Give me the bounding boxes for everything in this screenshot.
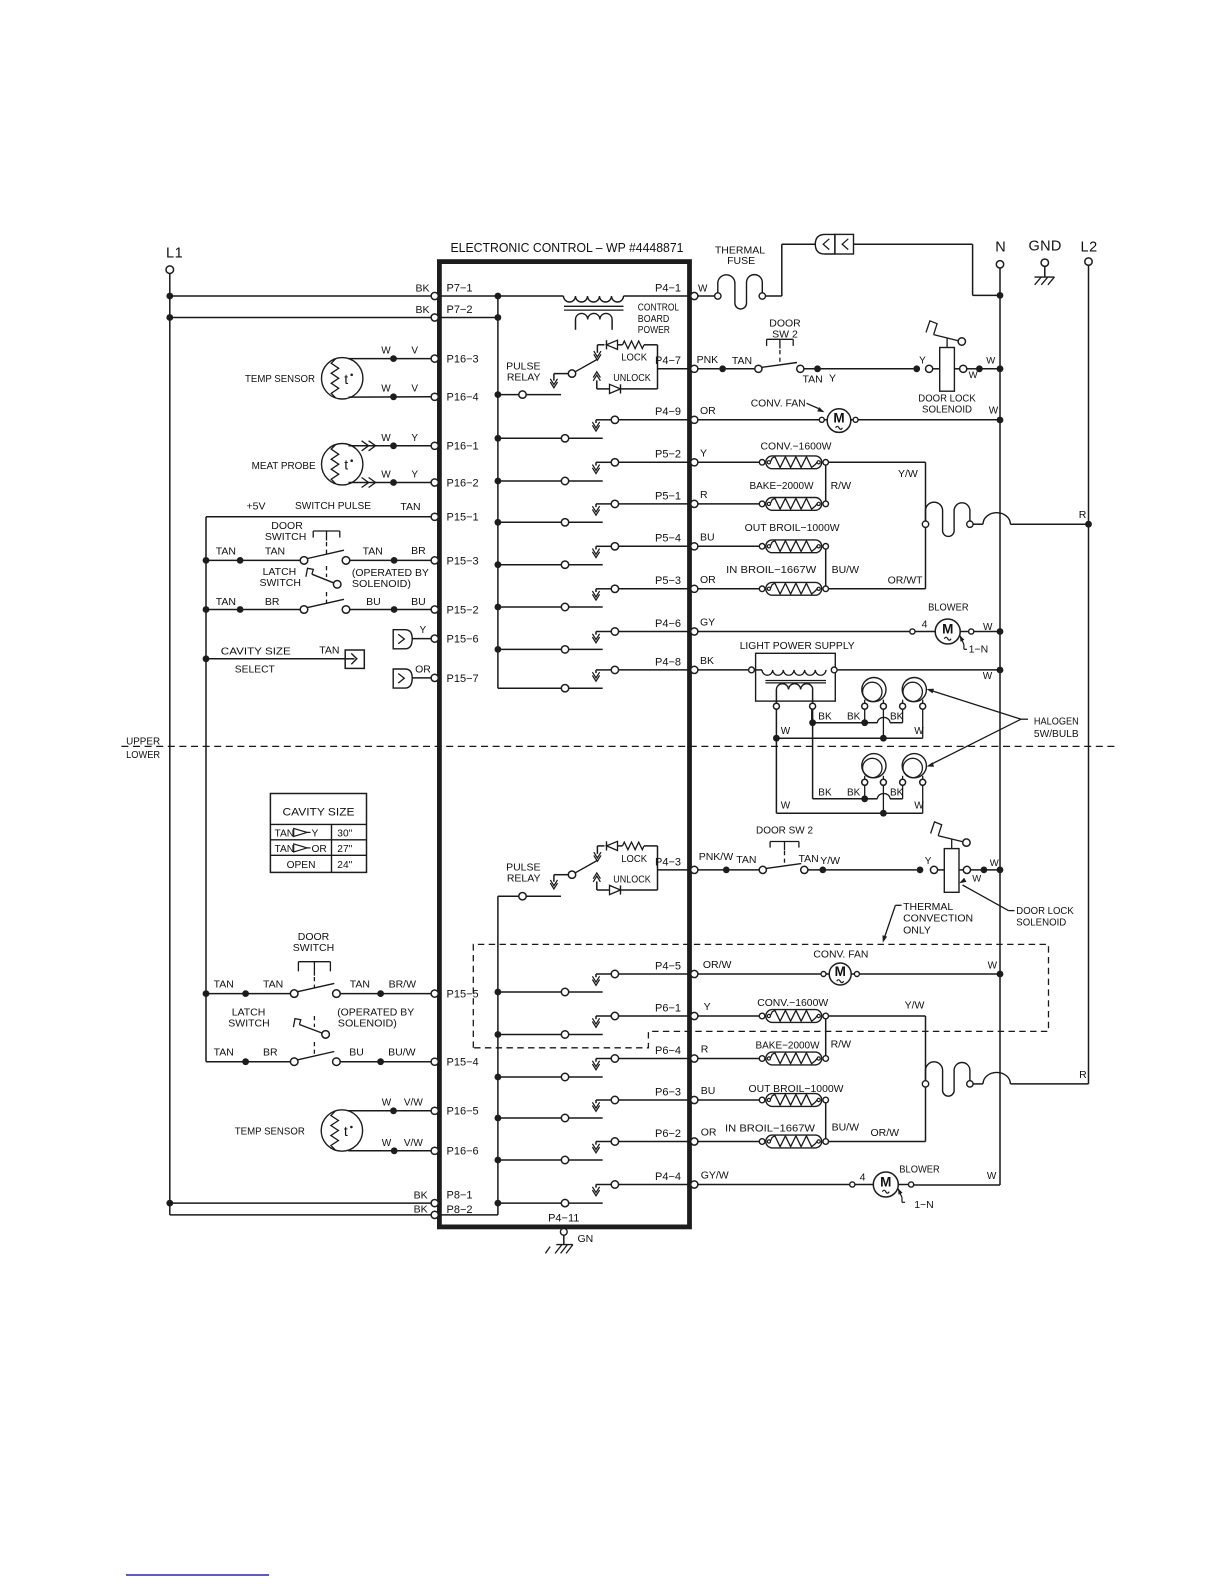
svg-text:P6−3: P6−3 [655,1086,681,1098]
svg-text:LOWER: LOWER [126,749,160,761]
svg-text:M: M [833,410,844,425]
svg-text:L1: L1 [166,246,183,262]
svg-text:DOOR SW 2: DOOR SW 2 [756,824,813,836]
svg-text:P4−9: P4−9 [655,406,681,418]
svg-text:P5−4: P5−4 [655,533,681,545]
svg-text:SELECT: SELECT [235,664,276,676]
svg-text:W: W [969,370,978,381]
svg-text:R: R [1079,509,1087,521]
svg-text:SWITCH PULSE: SWITCH PULSE [295,500,371,512]
svg-text:TAN: TAN [319,645,339,657]
svg-text:ELECTRONIC CONTROL – WP #44488: ELECTRONIC CONTROL – WP #4448871 [451,240,684,255]
svg-text:PNK: PNK [697,354,719,366]
svg-text:P5−3: P5−3 [655,575,681,587]
svg-text:DOOR LOCK: DOOR LOCK [1016,905,1073,917]
svg-text:Y: Y [700,448,707,460]
svg-text:M: M [835,964,846,979]
svg-text:+5V: +5V [247,501,266,513]
svg-text:TEMP SENSOR: TEMP SENSOR [235,1126,305,1138]
svg-text:BK: BK [700,655,714,667]
svg-text:BK: BK [415,282,429,294]
svg-text:t: t [344,457,348,473]
svg-text:P16−5: P16−5 [447,1106,479,1118]
svg-text:RELAY: RELAY [507,372,541,384]
svg-text:1−N: 1−N [969,644,989,656]
svg-text:W: W [986,356,995,367]
svg-text:V/W: V/W [404,1138,423,1149]
svg-text:W: W [381,345,391,356]
svg-text:POWER: POWER [638,324,670,336]
svg-text:SW 2: SW 2 [772,328,798,340]
svg-text:GND: GND [1029,239,1062,255]
svg-text:P15−1: P15−1 [447,512,479,524]
svg-text:Y: Y [919,356,926,367]
svg-text:TAN: TAN [363,546,383,558]
svg-text:P7−2: P7−2 [447,304,473,316]
svg-text:Y: Y [411,470,418,481]
svg-text:BK: BK [890,711,904,722]
svg-text:OPEN: OPEN [287,860,316,871]
svg-text:P4−7: P4−7 [655,355,681,367]
svg-text:OR: OR [415,664,431,676]
svg-text:HALOGEN: HALOGEN [1034,716,1079,728]
svg-text:OUT BROIL−1000W: OUT BROIL−1000W [745,522,840,534]
svg-text:P15−7: P15−7 [447,673,479,685]
svg-text:OR/W: OR/W [871,1127,900,1139]
svg-text:L2: L2 [1081,240,1098,256]
svg-text:TAN: TAN [736,854,756,866]
svg-text:P16−1: P16−1 [447,441,479,453]
svg-text:P7−1: P7−1 [447,282,473,294]
svg-text:P6−1: P6−1 [655,1002,681,1014]
svg-text:OR/WT: OR/WT [888,574,924,586]
svg-text:Y: Y [411,433,418,444]
svg-text:M: M [880,1174,891,1189]
svg-text:P16−3: P16−3 [447,354,479,366]
svg-text:IN BROIL−1667W: IN BROIL−1667W [725,1123,815,1135]
svg-text:W: W [914,801,924,812]
svg-text:OR: OR [701,1127,717,1139]
svg-text:W: W [381,384,391,395]
svg-text:BK: BK [890,788,904,799]
svg-text:PULSE: PULSE [506,360,540,372]
svg-text:BU: BU [411,596,426,608]
svg-text:P4−11: P4−11 [548,1213,579,1225]
svg-text:Y: Y [925,856,932,867]
svg-text:P15−4: P15−4 [447,1057,479,1069]
svg-text:W: W [382,1098,392,1109]
svg-text:BAKE−2000W: BAKE−2000W [750,480,814,492]
svg-text:Y: Y [829,372,836,384]
svg-text:30": 30" [337,828,352,839]
svg-text:SWITCH: SWITCH [293,942,334,954]
svg-text:Y/W: Y/W [898,468,918,480]
svg-text:Y: Y [312,828,319,839]
svg-text:IN BROIL−1667W: IN BROIL−1667W [726,564,816,576]
svg-text:P4−8: P4−8 [655,656,681,668]
svg-text:BR/W: BR/W [389,979,417,991]
svg-text:BK: BK [847,711,861,722]
svg-text:PNK/W: PNK/W [699,851,734,863]
svg-text:TEMP SENSOR: TEMP SENSOR [245,373,315,385]
svg-text:OR: OR [312,844,327,855]
svg-text:TAN: TAN [275,844,295,855]
svg-text:P4−4: P4−4 [655,1171,681,1183]
svg-text:CONV.−1600W: CONV.−1600W [761,441,832,453]
svg-text:W: W [781,726,791,737]
svg-text:SOLENOID: SOLENOID [1016,917,1066,929]
svg-text:P4−1: P4−1 [655,282,681,294]
svg-text:GN: GN [578,1233,594,1245]
svg-text:P16−6: P16−6 [447,1146,479,1158]
svg-text:CAVITY SIZE: CAVITY SIZE [283,807,355,819]
svg-text:t: t [344,371,348,387]
svg-text:GY/W: GY/W [701,1170,729,1182]
svg-text:OR: OR [700,405,716,417]
svg-text:BU: BU [700,532,715,544]
svg-text:LIGHT POWER SUPPLY: LIGHT POWER SUPPLY [740,640,855,652]
svg-text:BOARD: BOARD [638,313,670,325]
svg-text:P8−1: P8−1 [447,1190,473,1202]
svg-text:BAKE−2000W: BAKE−2000W [756,1039,820,1051]
svg-text:UNLOCK: UNLOCK [613,372,650,384]
svg-text:BK: BK [818,711,832,722]
svg-text:W: W [914,726,924,737]
svg-text:GY: GY [700,617,715,629]
svg-text:BLOWER: BLOWER [899,1164,940,1176]
svg-text:W: W [983,671,993,682]
svg-text:R/W: R/W [831,1039,852,1051]
svg-text:Y/W: Y/W [820,855,840,867]
svg-text:SWITCH: SWITCH [260,577,301,589]
svg-text:TAN: TAN [732,355,752,367]
svg-text:P16−2: P16−2 [447,477,479,489]
svg-text:BU/W: BU/W [832,564,860,576]
svg-text:UPPER: UPPER [126,735,160,747]
svg-text:P5−1: P5−1 [655,490,681,502]
svg-text:BR: BR [411,545,426,557]
svg-text:BK: BK [414,1204,428,1216]
svg-text:Y: Y [704,1001,711,1013]
svg-text:W: W [989,406,999,417]
svg-text:1−N: 1−N [914,1199,934,1211]
svg-text:BU/W: BU/W [832,1121,860,1133]
svg-text:SOLENOID): SOLENOID) [352,578,411,590]
svg-text:P5−2: P5−2 [655,449,681,461]
svg-text:BK: BK [847,788,861,799]
svg-text:BK: BK [818,788,832,799]
svg-text:R: R [1079,1069,1087,1081]
svg-text:TAN: TAN [803,374,823,386]
svg-text:V: V [411,345,418,356]
svg-text:MEAT PROBE: MEAT PROBE [252,460,316,472]
svg-text:LOCK: LOCK [621,853,647,865]
svg-text:t: t [344,1123,348,1139]
svg-text:CONV.−1600W: CONV.−1600W [757,997,828,1009]
svg-text:P15−2: P15−2 [447,604,479,616]
svg-text:BR: BR [263,1047,278,1059]
svg-text:P15−6: P15−6 [447,634,479,646]
svg-text:N: N [995,240,1005,256]
svg-text:PULSE: PULSE [506,861,540,873]
svg-text:TAN: TAN [265,546,285,558]
svg-text:W: W [972,873,981,884]
svg-text:M: M [942,621,953,636]
svg-text:TAN: TAN [214,1047,234,1059]
svg-text:TAN: TAN [263,979,283,991]
svg-text:W: W [381,470,391,481]
svg-text:P15−3: P15−3 [447,555,479,567]
svg-text:BLOWER: BLOWER [928,602,969,614]
svg-text:FUSE: FUSE [727,255,755,267]
svg-text:ONLY: ONLY [903,924,931,936]
svg-text:24": 24" [337,860,352,871]
svg-text:Y: Y [420,625,427,636]
svg-text:SOLENOID: SOLENOID [922,403,972,415]
svg-text:P4−5: P4−5 [655,960,681,972]
svg-text:TAN: TAN [214,979,234,991]
svg-text:P16−4: P16−4 [447,392,479,404]
svg-text:R: R [701,1044,709,1056]
svg-text:V: V [411,384,418,395]
svg-text:W: W [988,960,998,971]
svg-text:CONV. FAN: CONV. FAN [751,398,806,410]
svg-text:BU/W: BU/W [388,1047,416,1059]
svg-text:P4−3: P4−3 [655,856,681,868]
svg-text:P8−2: P8−2 [447,1204,473,1216]
svg-text:R/W: R/W [831,480,852,492]
svg-text:W: W [987,1171,997,1182]
svg-text:CONV. FAN: CONV. FAN [813,949,868,961]
svg-text:THERMAL: THERMAL [903,901,953,913]
svg-text:BU: BU [349,1047,364,1059]
svg-text:RELAY: RELAY [507,873,541,885]
svg-text:BU: BU [366,596,381,608]
svg-text:SWITCH: SWITCH [265,531,306,543]
svg-text:SWITCH: SWITCH [228,1017,269,1029]
svg-text:LOCK: LOCK [621,352,647,364]
svg-text:27": 27" [337,844,352,855]
svg-text:CONTROL: CONTROL [638,301,679,313]
svg-text:TAN: TAN [799,853,819,865]
svg-text:P4−6: P4−6 [655,618,681,630]
svg-text:P6−4: P6−4 [655,1045,681,1057]
svg-text:BU: BU [701,1085,716,1097]
svg-text:BK: BK [414,1190,428,1202]
svg-text:TAN: TAN [400,501,420,513]
svg-text:BR: BR [265,596,280,608]
svg-text:OR/W: OR/W [703,959,732,971]
svg-text:OR: OR [700,574,716,586]
svg-text:CAVITY SIZE: CAVITY SIZE [221,646,291,658]
svg-text:P6−2: P6−2 [655,1128,681,1140]
svg-text:UNLOCK: UNLOCK [613,873,650,885]
svg-text:W: W [983,622,993,633]
svg-text:CONVECTION: CONVECTION [903,913,973,925]
svg-text:SOLENOID): SOLENOID) [338,1017,397,1029]
svg-text:TAN: TAN [275,828,295,839]
svg-text:W: W [382,1138,392,1149]
svg-text:5W/BULB: 5W/BULB [1034,728,1079,740]
svg-text:TAN: TAN [216,546,236,558]
svg-text:R: R [700,489,708,501]
svg-text:TAN: TAN [350,979,370,991]
svg-text:W: W [990,858,999,869]
svg-text:W: W [381,433,391,444]
svg-text:V/W: V/W [404,1098,423,1109]
svg-text:W: W [781,801,791,812]
svg-text:W: W [698,284,708,295]
svg-text:4: 4 [860,1172,866,1184]
svg-text:Y/W: Y/W [905,1000,925,1012]
svg-text:BK: BK [415,304,429,316]
svg-text:4: 4 [922,619,928,631]
svg-text:TAN: TAN [216,596,236,608]
